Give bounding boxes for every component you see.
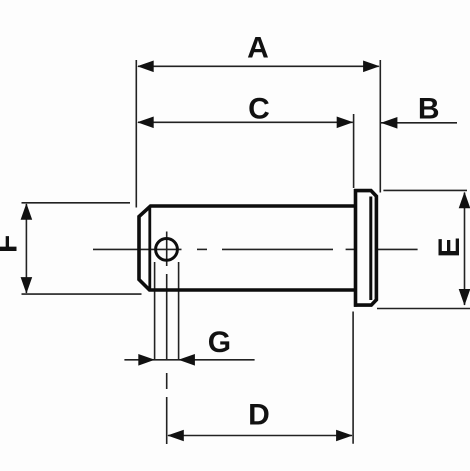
centerline: horizontal dash-dot through pin axis xyxy=(93,248,182,250)
pin face chamfer line xyxy=(148,208,151,289)
arrowhead G right (points left) xyxy=(178,354,195,366)
arrowhead E top xyxy=(459,192,470,209)
arrowhead C left xyxy=(137,117,154,129)
wire: left extension line (A/C) xyxy=(135,60,137,208)
wire: G right hole-edge extension line xyxy=(178,262,180,360)
wire: G left hole-edge extension line xyxy=(154,262,156,360)
centerline: vertical through hole (crosshair + dash-dot down to D) xyxy=(166,232,168,267)
svg-text:E: E xyxy=(433,237,466,257)
arrowhead D right xyxy=(336,430,353,442)
wire: E top extension line xyxy=(383,189,467,191)
arrowhead B (points left at head right face) xyxy=(381,117,398,129)
head left face line xyxy=(354,189,358,307)
arrowhead A right xyxy=(363,61,380,73)
wire: F top extension line xyxy=(22,202,131,204)
pin body outline xyxy=(139,206,356,290)
arrowhead F top xyxy=(21,203,33,220)
wire: dimension line A xyxy=(138,65,379,67)
wire: dimension line G xyxy=(124,359,254,361)
arrowhead D left xyxy=(167,430,184,442)
hole xyxy=(156,239,178,261)
wire: dimension line C xyxy=(138,121,353,123)
svg-text:B: B xyxy=(418,92,440,125)
arrowhead C right xyxy=(337,117,354,129)
svg-text:A: A xyxy=(247,32,269,65)
head outline xyxy=(354,191,376,306)
arrowhead A left xyxy=(137,61,154,73)
wire: extension line head left face top (C/B) xyxy=(353,114,355,188)
svg-text:F: F xyxy=(0,235,24,253)
wire: F bottom extension line xyxy=(22,293,142,295)
wire: dimension line D xyxy=(168,435,352,437)
svg-text:D: D xyxy=(248,398,270,431)
wire: dimension line F xyxy=(25,204,27,293)
svg-text:C: C xyxy=(248,93,270,126)
arrowhead G left (points right) xyxy=(138,354,155,366)
arrowhead E bottom xyxy=(459,289,470,306)
wire: dimension line B xyxy=(381,122,457,124)
svg-text:G: G xyxy=(208,326,231,359)
wire: dimension line E xyxy=(464,193,466,306)
wire: extension line head left face bottom (D right) xyxy=(352,312,354,444)
arrowhead F bottom xyxy=(21,277,33,294)
head face inner line xyxy=(369,197,372,301)
wire: E bottom extension line xyxy=(377,308,470,310)
wire: right extension line (A/B at head right face) xyxy=(379,60,381,193)
